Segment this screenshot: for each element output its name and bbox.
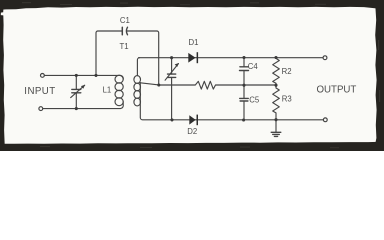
svg-text:D1: D1 bbox=[189, 38, 199, 47]
svg-text:OUTPUT: OUTPUT bbox=[317, 85, 357, 96]
svg-text:R2: R2 bbox=[282, 67, 292, 76]
svg-text:C1: C1 bbox=[120, 16, 130, 25]
svg-text:INPUT: INPUT bbox=[24, 86, 55, 97]
svg-text:R3: R3 bbox=[282, 94, 292, 103]
svg-text:L1: L1 bbox=[103, 86, 112, 95]
svg-text:C4: C4 bbox=[248, 62, 259, 71]
svg-text:C5: C5 bbox=[249, 96, 260, 105]
svg-text:T1: T1 bbox=[120, 42, 129, 51]
svg-text:D2: D2 bbox=[187, 127, 197, 136]
